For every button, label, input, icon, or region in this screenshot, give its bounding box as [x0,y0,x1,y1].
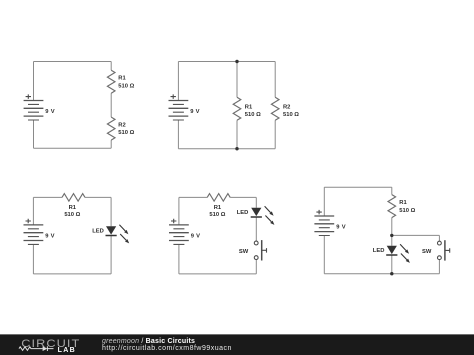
wire right-mid C4 [255,217,257,241]
svg-text:LAB: LAB [58,347,76,354]
wire mid-upper C2 [236,62,238,98]
wire left-upper C2 [177,62,179,101]
svg-text:R2: R2 [283,105,290,111]
wire left-upper C3 [32,197,34,225]
wire top C2 [178,61,275,63]
wire top C1 [34,61,112,63]
svg-text:R1: R1 [118,75,126,81]
LED D1 C4 [251,206,275,225]
battery V1 C5 [314,210,334,236]
wire left-upper C1 [33,62,35,101]
wire right-upper C4 [255,197,257,207]
wire branch-down C5 [438,235,440,241]
wire right-upper C3 [110,197,112,226]
junction top C2 [235,60,238,63]
logo diode [43,346,48,351]
wire bottom C3 [33,273,111,275]
switch SW C4 [254,240,266,260]
junction mid C5 [390,234,393,237]
battery V1 9V C2 [169,94,189,120]
wire bottom C5 [324,273,439,275]
switch SW C5 [438,240,450,260]
logo waveform resistor [19,347,43,351]
svg-text:R1: R1 [69,205,77,211]
svg-text:510 Ω: 510 Ω [118,130,134,136]
svg-text:SW: SW [239,249,249,255]
wire right-lower C1 [110,140,112,148]
svg-text:510 Ω: 510 Ω [64,212,80,218]
wire top-left C3 [33,196,62,198]
svg-text:510 Ω: 510 Ω [399,208,415,214]
wire top C5 [324,186,392,188]
wire left-lower C5 [323,236,325,274]
wire top-right C4 [230,196,256,198]
resistor R2 C2 [271,97,279,120]
resistor R2 [107,117,115,140]
svg-text:9 V: 9 V [45,233,55,239]
wire mid-lower C5 [391,255,393,273]
svg-text:R1: R1 [214,205,222,211]
svg-text:SW: SW [422,249,432,255]
svg-text:9 V: 9 V [190,109,200,115]
LED D1 C3 [106,225,130,244]
junction bottom C2 [235,147,238,150]
svg-text:http://circuitlab.com/cxm8fw99: http://circuitlab.com/cxm8fw99xuacn [102,345,232,352]
svg-text:9 V: 9 V [191,233,201,239]
svg-text:LED: LED [92,228,104,234]
wire right-upper C1 [110,62,112,71]
battery V1 9V [24,94,44,120]
wire right-mid C1 [110,93,112,117]
svg-text:R2: R2 [118,122,125,128]
wire left-lower C1 [33,120,35,148]
footer background [0,335,474,355]
svg-text:9 V: 9 V [336,224,346,230]
wire left-lower C2 [177,120,179,149]
svg-text:510 Ω: 510 Ω [283,112,299,118]
wire mid-between C5 [391,218,393,246]
wire top-right C3 [85,196,111,198]
wire top-left C4 [179,196,207,198]
wire switch-lower C5 [438,260,440,274]
wire bottom C4 [179,273,256,275]
svg-text:510 Ω: 510 Ω [245,112,261,118]
wire right-upper C2 [274,62,276,98]
wire right-lower C4 [255,260,257,274]
wire right-lower C2 [274,120,276,148]
resistor R1 C2 [233,97,241,120]
battery V1 C4 [169,219,189,245]
svg-text:9 V: 9 V [45,109,55,115]
battery V1 C3 [24,219,44,245]
svg-text:greenmoon / Basic Circuits: greenmoon / Basic Circuits [102,338,195,345]
svg-text:LED: LED [237,210,249,216]
svg-text:R1: R1 [245,105,253,111]
wire mid-upper C5 [391,187,393,194]
wire branch-horizontal C5 [392,234,440,236]
wire bottom C2 [178,148,275,150]
wire mid-lower C2 [236,120,238,148]
wire left-upper C4 [178,197,180,225]
wire left-upper C5 [323,187,325,216]
resistor R1 [107,70,115,93]
wire left-lower C4 [178,244,180,274]
LED D1 C5 [386,244,410,263]
svg-text:LED: LED [373,248,385,254]
wire right-lower C3 [110,236,112,274]
resistor R1 C3 [62,194,85,202]
junction bottom C5 [390,272,393,275]
svg-text:510 Ω: 510 Ω [118,83,134,89]
svg-text:R1: R1 [399,200,407,206]
resistor R1 C4 [207,194,230,202]
svg-text:510 Ω: 510 Ω [209,212,225,218]
wire bottom C1 [34,147,112,149]
resistor R1 C5 [388,195,396,218]
wire left-lower C3 [32,244,34,274]
